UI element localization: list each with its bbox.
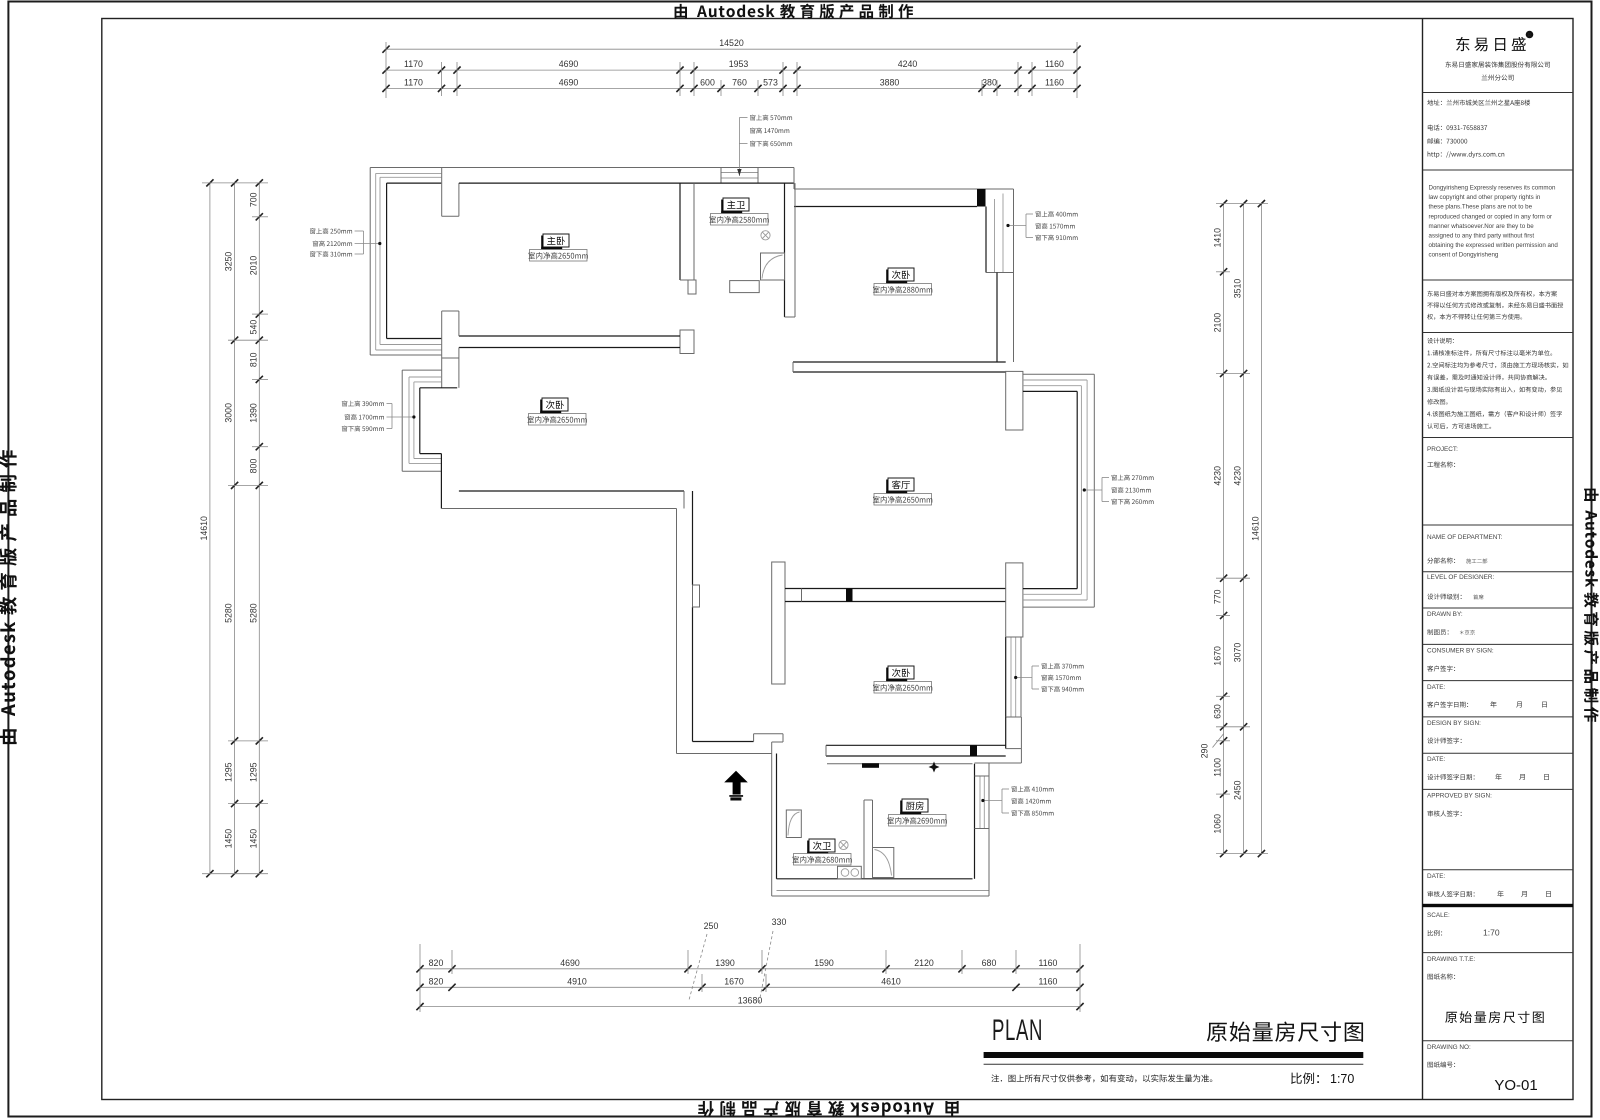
watermark left (rotated -90) <box>0 450 17 744</box>
svg-text:4690: 4690 <box>559 59 579 69</box>
pier: bay window top pier <box>1006 371 1023 430</box>
scale note <box>1291 1073 1319 1085</box>
svg-text:manner whatsoever.Nor are they: manner whatsoever.Nor are they to be <box>1429 223 1535 230</box>
svg-text:3070: 3070 <box>1233 643 1243 663</box>
wall: kitchen top wall <box>827 763 973 765</box>
dimension chain: right outer column (14610) <box>1260 204 1262 854</box>
svg-text:800: 800 <box>248 459 258 474</box>
fixture: master bath floor drain <box>761 231 770 240</box>
svg-text:1390: 1390 <box>248 403 258 423</box>
svg-text:3880: 3880 <box>880 77 900 87</box>
svg-text:assigned to any third party wi: assigned to any third party without firs… <box>1429 233 1535 240</box>
sheet title: PLAN <box>992 1014 1043 1048</box>
svg-text:DRAWING NO:: DRAWING NO: <box>1427 1044 1471 1051</box>
room label 次卫 <box>809 839 835 852</box>
wall: second bedroom bottom wall (top-right room) <box>793 361 1006 363</box>
jamb: black jamb in living room bottom wall <box>970 745 977 756</box>
svg-text:573: 573 <box>763 77 778 87</box>
annotation: second bedroom right window heights <box>1035 211 1077 217</box>
wall: step to kitchen right wall <box>1006 748 1022 750</box>
svg-text:760: 760 <box>732 77 747 87</box>
fixture: stove with two burners <box>838 866 862 879</box>
jamb: black jamb at right end of bedroom top wall <box>977 189 986 207</box>
watermark top <box>675 4 914 19</box>
svg-text:DATE:: DATE: <box>1427 756 1446 763</box>
svg-text:PROJECT:: PROJECT: <box>1427 446 1458 453</box>
svg-text:PLAN: PLAN <box>992 1014 1043 1048</box>
dimension chain: left column C <box>258 183 260 874</box>
pier: bay window bottom pier <box>1006 563 1023 637</box>
wall: bath/kitchen block bottom <box>772 895 989 897</box>
svg-text:DATE:: DATE: <box>1427 684 1446 691</box>
svg-text:380: 380 <box>982 77 997 87</box>
wall: bath block left wall <box>771 742 773 896</box>
svg-text:1390: 1390 <box>715 958 735 968</box>
dimension chain: bottom row 2 <box>420 986 1080 988</box>
wall: top wall of second bedroom (top-right) <box>794 188 1014 190</box>
svg-text:600: 600 <box>700 77 715 87</box>
extension lines: right chains <box>1216 203 1268 205</box>
svg-text:820: 820 <box>429 976 444 986</box>
dimension chain: left column B <box>234 183 236 874</box>
svg-text:consent of Dongyirisheng: consent of Dongyirisheng <box>1429 252 1499 259</box>
wall: living/lower-bedroom divider <box>785 588 1006 590</box>
svg-text:4910: 4910 <box>567 976 587 986</box>
room label 主卫 <box>723 198 749 211</box>
address block <box>1427 100 1530 106</box>
pier at top wall (master bedroom) <box>441 168 443 217</box>
window: middle bedroom left bay window (nested) <box>401 370 403 471</box>
svg-text:1953: 1953 <box>729 59 749 69</box>
svg-text:5280: 5280 <box>248 603 258 623</box>
title underline thick <box>984 1052 1364 1058</box>
window: above master bath (in top wall) <box>721 172 758 174</box>
dimension chain: bottom row 3 (13680) <box>420 1006 1080 1008</box>
svg-text:1410: 1410 <box>1213 228 1223 248</box>
svg-text:R: R <box>1528 33 1532 39</box>
svg-text:14610: 14610 <box>1250 516 1260 541</box>
svg-text:these plans.These plans are no: these plans.These plans are not to be <box>1429 204 1533 211</box>
svg-text:law copyright and other proper: law copyright and other property rights … <box>1429 194 1541 201</box>
extension lines: left chains <box>202 182 268 184</box>
annotation: middle bedroom bay window heights <box>342 401 384 407</box>
annotation: lower bedroom right window heights <box>1041 663 1083 669</box>
fixture: second bath floor drain <box>839 840 848 849</box>
jamb: pier at end of master bedroom bottom wall <box>680 330 694 354</box>
wall: master bath right wall <box>794 183 796 317</box>
svg-text:1160: 1160 <box>1039 976 1058 986</box>
svg-text:DESIGN BY SIGN:: DESIGN BY SIGN: <box>1427 720 1481 727</box>
svg-text:4230: 4230 <box>1213 466 1223 486</box>
svg-text:770: 770 <box>1213 589 1223 604</box>
extension lines: top chains <box>385 42 387 98</box>
dimension chain: top row 1 (14520) <box>386 48 1077 50</box>
wall: master bedroom bottom wall <box>459 335 680 337</box>
svg-text:1170: 1170 <box>404 59 423 69</box>
notch: cased opening on interior wall <box>688 280 696 294</box>
svg-text:1450: 1450 <box>224 829 234 849</box>
svg-text:NAME OF DEPARTMENT:: NAME OF DEPARTMENT: <box>1427 534 1503 541</box>
note line <box>991 1074 1212 1082</box>
extension lines: bottom chains <box>419 944 421 1012</box>
svg-text:1450: 1450 <box>248 829 258 849</box>
annotation: master bath top window heights (vertical leader) <box>750 115 792 121</box>
logo 东易日盛 <box>1456 37 1526 51</box>
svg-text:4690: 4690 <box>560 958 580 968</box>
watermark bottom (rotated 180) <box>698 1101 958 1117</box>
svg-text:630: 630 <box>1213 704 1223 719</box>
wall: interior wall stub left (x 441-459, y 311-388) <box>441 311 443 388</box>
title block thick divider <box>1423 904 1574 907</box>
watermark right (rotated 90) <box>1584 489 1599 722</box>
svg-text:1:70: 1:70 <box>1483 928 1500 938</box>
svg-text:540: 540 <box>248 320 258 335</box>
svg-text:SCALE:: SCALE: <box>1427 912 1450 919</box>
wall: living room bottom wall <box>826 744 1006 746</box>
svg-text:810: 810 <box>248 352 258 367</box>
svg-text:2120: 2120 <box>914 958 934 968</box>
svg-text:4230: 4230 <box>1233 466 1243 486</box>
door: kitchen door with swing <box>873 848 894 878</box>
svg-text:Dongyirisheng Expressly reserv: Dongyirisheng Expressly reserves its com… <box>1429 185 1556 192</box>
room label 厨房 <box>902 799 928 812</box>
svg-text:LEVEL OF DESIGNER:: LEVEL OF DESIGNER: <box>1427 574 1494 581</box>
door: master bath door with swing <box>761 253 785 280</box>
svg-text:4610: 4610 <box>881 976 901 986</box>
room label 主卧 <box>543 234 569 247</box>
svg-text:14520: 14520 <box>719 38 744 48</box>
svg-text:3250: 3250 <box>224 252 234 272</box>
wall: below bay window <box>440 454 442 509</box>
svg-text:4240: 4240 <box>898 59 918 69</box>
wall: step down at x=794 <box>793 168 795 190</box>
svg-text:330: 330 <box>772 917 787 927</box>
symbol: four-point star <box>929 762 940 773</box>
dimension chain: top row 2 <box>386 69 1077 71</box>
svg-text:1060: 1060 <box>1213 814 1223 834</box>
svg-text:4690: 4690 <box>559 77 579 87</box>
svg-text:1295: 1295 <box>224 762 234 782</box>
wall: lower-left exterior wall <box>676 509 678 754</box>
svg-text:1670: 1670 <box>724 976 744 986</box>
svg-text:reproduced changed or copied i: reproduced changed or copied in any form… <box>1429 213 1552 220</box>
wall: bath/kitchen divider <box>863 800 865 879</box>
window: second bedroom right window (vertical 4-line) <box>1013 189 1015 273</box>
svg-text:3510: 3510 <box>1233 279 1243 299</box>
window: lower bedroom right window (vertical 4-line) <box>1020 637 1022 717</box>
svg-text:1590: 1590 <box>814 958 834 968</box>
title underline thin <box>984 1063 1364 1065</box>
svg-text:1170: 1170 <box>404 77 423 87</box>
room label 次卧 <box>888 268 914 281</box>
svg-text:CONSUMER BY SIGN:: CONSUMER BY SIGN: <box>1427 648 1494 655</box>
wall: corridor wall (between hall and lower bedroom) <box>772 562 785 684</box>
wall: kitchen right wall with window <box>988 763 990 896</box>
svg-text:5280: 5280 <box>224 603 234 623</box>
svg-text:2010: 2010 <box>248 256 258 276</box>
design notes 设计说明 <box>1427 338 1454 344</box>
wall: top wall inner line continues <box>459 182 680 184</box>
svg-text:2100: 2100 <box>1213 313 1223 333</box>
door: second bath door with swing <box>786 810 801 838</box>
company name lines <box>1445 61 1549 67</box>
svg-text:680: 680 <box>982 958 997 968</box>
window: living room bay window (nested C-shape) <box>1023 373 1094 375</box>
wall: below lower-bedroom window <box>1020 717 1022 749</box>
svg-text:1160: 1160 <box>1045 59 1064 69</box>
room label 次卧 <box>888 666 914 679</box>
wall: below right window down to dividing wall <box>996 273 998 363</box>
svg-text:250: 250 <box>704 921 719 931</box>
svg-text:700: 700 <box>248 192 258 207</box>
title block outline <box>1422 19 1424 1100</box>
annotation: master bedroom left window heights <box>310 228 352 234</box>
svg-text:DRAWN BY:: DRAWN BY: <box>1427 611 1463 618</box>
svg-text:DRAWING T.T.E:: DRAWING T.T.E: <box>1427 956 1476 963</box>
jamb: black jamb in divider wall <box>846 589 853 602</box>
svg-text:820: 820 <box>429 958 444 968</box>
svg-text:3000: 3000 <box>224 403 234 423</box>
svg-text:2450: 2450 <box>1233 780 1243 800</box>
wall: middle bedroom bottom wall <box>459 490 684 492</box>
wall: top exterior wall of master bedroom / master bath <box>370 167 794 169</box>
svg-text:1160: 1160 <box>1039 958 1058 968</box>
svg-text:1100: 1100 <box>1213 758 1223 777</box>
annotation: kitchen right window heights <box>1011 786 1053 792</box>
svg-text:1670: 1670 <box>1213 646 1223 666</box>
dimension chain: left column A (14610) <box>209 183 211 874</box>
svg-text:obtaining the expressed writte: obtaining the expressed written permissi… <box>1429 242 1559 249</box>
svg-text:14610: 14610 <box>199 516 209 541</box>
annotation: living room bay window heights <box>1111 475 1153 481</box>
fixture: master bath shelf <box>730 281 760 293</box>
dimension chain: bottom row 1 <box>420 968 1080 970</box>
dimension chain: right middle column <box>1243 204 1245 854</box>
svg-text:1160: 1160 <box>1045 77 1064 87</box>
wall: hall bottom exterior <box>677 753 772 755</box>
wall: interior long wall between master bedroom and hall <box>679 183 681 280</box>
svg-text:APPROVED BY SIGN:: APPROVED BY SIGN: <box>1427 793 1492 800</box>
chinese copyright paragraph <box>1427 291 1557 297</box>
svg-text:YO-01: YO-01 <box>1494 1077 1537 1094</box>
jamb: kitchen top jamb <box>862 763 879 768</box>
svg-text:1295: 1295 <box>248 762 258 782</box>
north arrow <box>724 771 748 795</box>
room label 次卧 <box>542 398 568 411</box>
window: master bedroom left bay window (4-line) <box>369 168 371 356</box>
svg-text:1:70: 1:70 <box>1330 1072 1354 1086</box>
svg-text:13680: 13680 <box>738 996 763 1006</box>
svg-text:290: 290 <box>1200 744 1210 759</box>
door notch: entry door on left wall <box>693 585 700 607</box>
sheet title: chinese <box>1207 1021 1363 1041</box>
dimension chain: right inner column <box>1223 204 1225 854</box>
svg-text:DATE:: DATE: <box>1427 873 1446 880</box>
dimension chain: top row 3 <box>386 87 1077 89</box>
room label 客厅 <box>888 478 914 491</box>
